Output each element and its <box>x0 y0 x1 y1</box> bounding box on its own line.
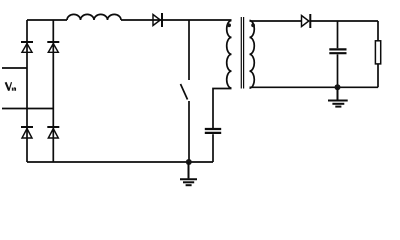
node polarity dot primary <box>227 23 231 27</box>
resistor R load <box>375 41 380 64</box>
ground G2 <box>328 87 348 106</box>
wire C2 top lead <box>337 21 339 48</box>
wire resistor bottom lead <box>377 64 379 87</box>
wire bottom return bus <box>27 161 213 163</box>
diode D2 <box>302 14 311 28</box>
wire C2 bottom lead <box>337 54 339 87</box>
diode D4 top-right <box>47 42 59 52</box>
wire bridge left rail <box>26 20 28 162</box>
node polarity dot secondary <box>251 23 255 27</box>
wire AC input line 2 <box>2 108 53 110</box>
diode D3 top-left <box>21 42 33 52</box>
wire resistor top lead <box>377 21 379 41</box>
wire top DC bus <box>27 19 232 21</box>
wire bridge right rail <box>52 20 54 162</box>
switch S1 top lead <box>188 20 190 80</box>
node junction dot switch-ground <box>186 159 192 165</box>
wire primary-bottom to C1 <box>213 89 232 129</box>
transformer T1 secondary winding <box>250 21 255 89</box>
diode D1 <box>153 13 162 27</box>
capacitor C2 <box>329 49 346 53</box>
switch S1 bottom lead <box>188 101 190 162</box>
ground G1 <box>180 162 197 185</box>
transformer T1 core <box>241 17 243 89</box>
diode D6 bottom-right <box>47 127 59 138</box>
inductor L1 <box>67 14 121 20</box>
wire secondary top <box>250 20 379 22</box>
capacitor C1 <box>205 129 221 133</box>
wire C1 to bottom bus <box>212 134 214 162</box>
node junction dot C2-ground <box>335 84 341 90</box>
diode D5 bottom-left <box>21 127 33 138</box>
wire secondary bottom <box>250 86 379 88</box>
wire AC input line 1 <box>2 67 27 69</box>
label Vin <box>6 82 16 91</box>
switch S1 blade <box>181 84 188 100</box>
transformer T1 primary winding <box>227 21 232 89</box>
